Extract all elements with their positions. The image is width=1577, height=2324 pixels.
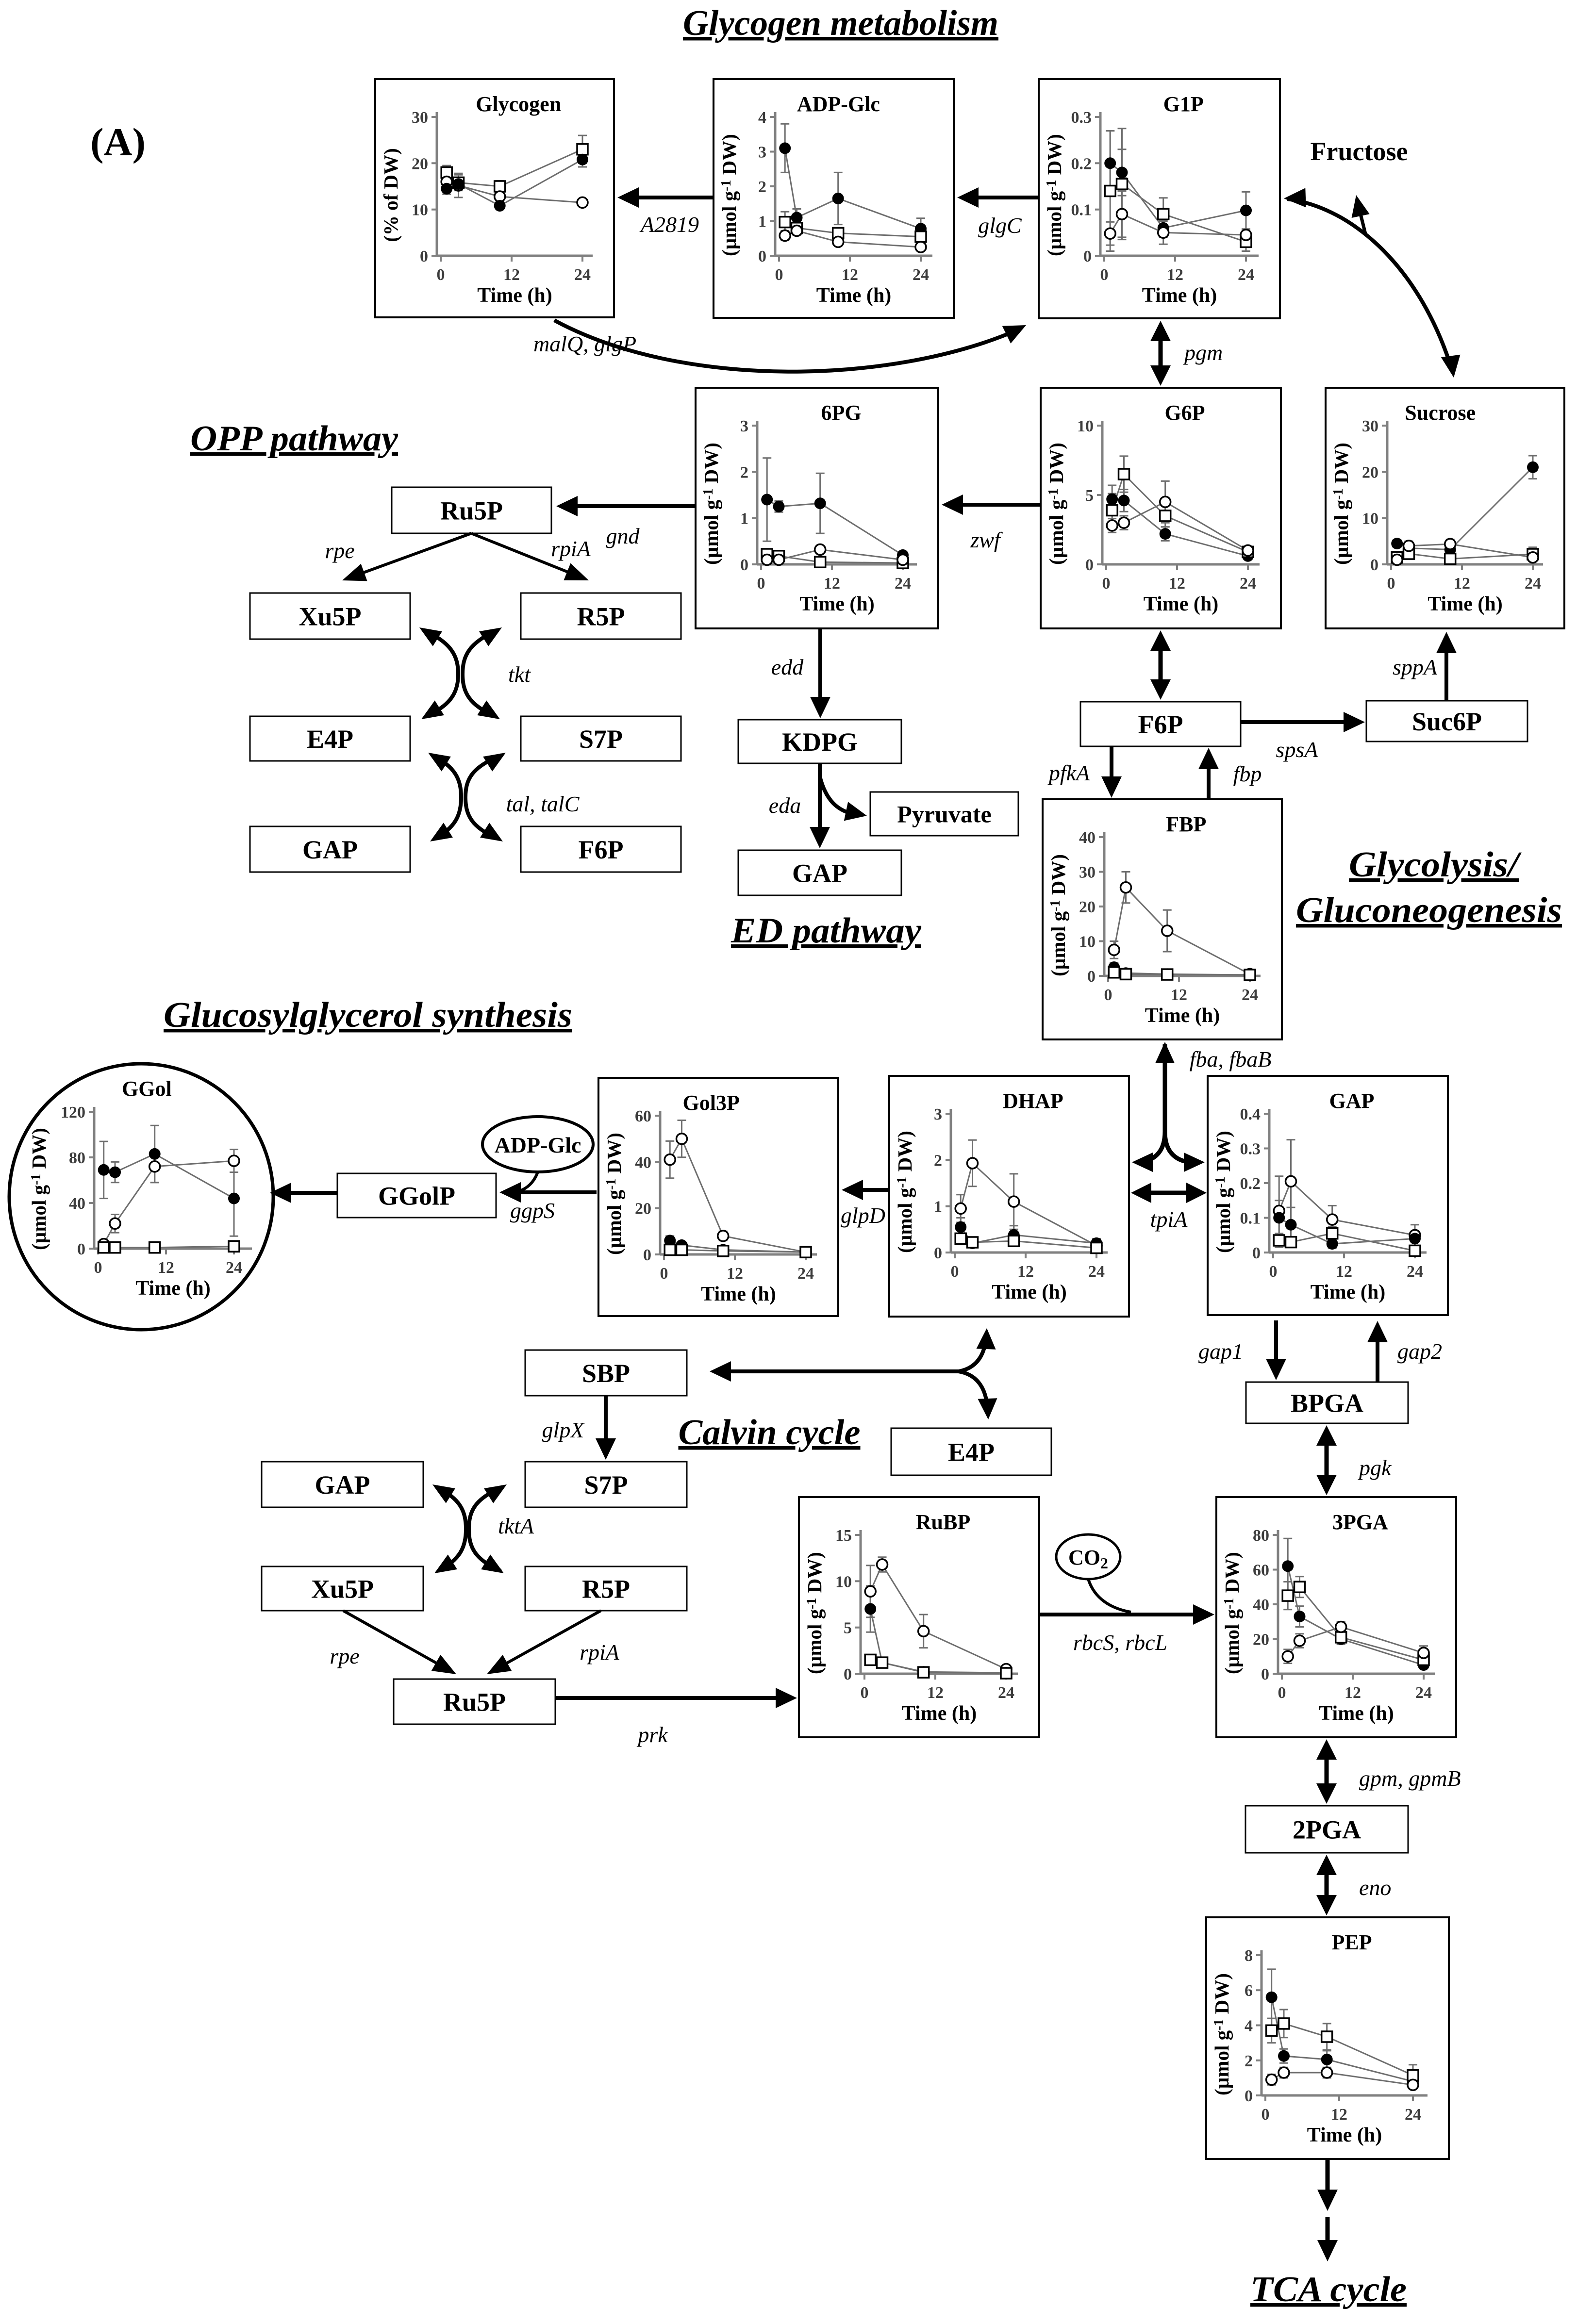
- arrow GGolP to GGol: [270, 1183, 337, 1203]
- svg-text:glpD: glpD: [841, 1203, 885, 1228]
- svg-text:80: 80: [1253, 1527, 1269, 1545]
- svg-text:15: 15: [835, 1527, 852, 1545]
- svg-text:24: 24: [797, 1265, 814, 1283]
- box Suc6P: [1366, 701, 1527, 742]
- svg-text:80: 80: [69, 1149, 85, 1167]
- ellipse ADP-Glc: [482, 1117, 593, 1172]
- svg-text:40: 40: [69, 1195, 85, 1213]
- svg-text:GAP: GAP: [315, 1470, 370, 1500]
- svg-text:(µmol g-1 DW): (µmol g-1 DW): [1045, 443, 1067, 565]
- svg-text:GAP: GAP: [302, 835, 358, 864]
- arrow zwf: [942, 494, 1041, 552]
- svg-text:60: 60: [1253, 1562, 1269, 1580]
- box GAP Calvin: [262, 1462, 423, 1507]
- svg-text:gpm, gpmB: gpm, gpmB: [1359, 1766, 1461, 1791]
- box F6P glycolysis: [1080, 702, 1241, 746]
- box Xu5P OPP: [250, 593, 410, 639]
- svg-text:Pyruvate: Pyruvate: [897, 801, 991, 828]
- svg-text:120: 120: [61, 1104, 85, 1121]
- svg-text:glgC: glgC: [978, 213, 1022, 238]
- arrow rbcS, rbcL: [1039, 1579, 1214, 1655]
- section title Calvin cycle: [679, 1413, 861, 1452]
- svg-text:0.1: 0.1: [1071, 201, 1092, 219]
- svg-text:8: 8: [1245, 1947, 1253, 1965]
- crossing arrows tal, talC: [428, 753, 580, 841]
- svg-text:2: 2: [740, 463, 748, 481]
- svg-text:0: 0: [643, 1246, 651, 1264]
- svg-text:12: 12: [1167, 266, 1183, 284]
- crossing arrows tkt: [419, 627, 531, 719]
- svg-text:Time (h): Time (h): [701, 1283, 776, 1305]
- box E4P OPP: [250, 716, 410, 761]
- svg-text:KDPG: KDPG: [782, 727, 858, 757]
- svg-text:tpiA: tpiA: [1150, 1207, 1188, 1232]
- svg-text:24: 24: [1238, 266, 1254, 284]
- svg-text:ADP-Glc: ADP-Glc: [495, 1133, 581, 1157]
- arrow gap2: [1367, 1321, 1442, 1382]
- svg-text:rpiA: rpiA: [551, 536, 591, 561]
- svg-text:(% of DW): (% of DW): [380, 148, 402, 242]
- svg-text:6: 6: [1245, 1982, 1253, 2000]
- svg-text:(A): (A): [90, 120, 146, 164]
- svg-text:gap1: gap1: [1198, 1339, 1243, 1364]
- arrow eda: [769, 763, 867, 848]
- svg-text:Calvin cycle: Calvin cycle: [679, 1413, 861, 1452]
- svg-text:24: 24: [1242, 986, 1258, 1004]
- svg-text:Time (h): Time (h): [1142, 284, 1217, 307]
- double arrow eno: [1316, 1855, 1391, 1915]
- box Xu5P Calvin: [262, 1566, 423, 1611]
- box BPGA: [1246, 1382, 1408, 1423]
- svg-text:2: 2: [758, 178, 766, 196]
- svg-text:prk: prk: [636, 1722, 668, 1747]
- arrow fbp: [1198, 748, 1262, 799]
- svg-text:G6P: G6P: [1164, 401, 1205, 425]
- section title OPP pathway: [190, 419, 398, 459]
- svg-text:0: 0: [1269, 1263, 1278, 1281]
- svg-text:0: 0: [1261, 1665, 1269, 1683]
- svg-text:Ru5P: Ru5P: [440, 496, 503, 525]
- svg-text:eda: eda: [769, 793, 801, 818]
- box GGolP: [337, 1173, 496, 1218]
- svg-text:S7P: S7P: [584, 1470, 628, 1500]
- svg-text:20: 20: [1079, 898, 1096, 916]
- svg-text:0.2: 0.2: [1240, 1175, 1261, 1193]
- svg-text:12: 12: [727, 1265, 743, 1283]
- svg-text:0: 0: [1370, 556, 1378, 574]
- svg-text:(µmol g-1 DW): (µmol g-1 DW): [1211, 1973, 1233, 2095]
- arrow A2819: [617, 187, 714, 237]
- svg-text:4: 4: [1245, 2017, 1253, 2035]
- svg-text:RuBP: RuBP: [916, 1510, 970, 1534]
- box S7P Calvin: [525, 1462, 687, 1507]
- box S7P OPP: [521, 716, 681, 761]
- svg-text:24: 24: [1407, 1263, 1423, 1281]
- svg-text:rpe: rpe: [330, 1644, 359, 1668]
- curved arrow malQ, glgP: [533, 320, 1026, 372]
- svg-text:2: 2: [934, 1152, 942, 1170]
- svg-text:tal, talC: tal, talC: [506, 791, 580, 816]
- svg-text:24: 24: [1415, 1684, 1432, 1702]
- section title TCA cycle: [1250, 2270, 1407, 2309]
- circle chart GGol: [9, 1064, 273, 1330]
- svg-text:0: 0: [951, 1263, 959, 1281]
- box SBP: [525, 1350, 687, 1396]
- svg-text:GGolP: GGolP: [378, 1181, 455, 1210]
- svg-text:Time (h): Time (h): [816, 284, 891, 307]
- svg-text:spsA: spsA: [1276, 737, 1319, 762]
- svg-text:1: 1: [758, 213, 766, 231]
- svg-text:rpiA: rpiA: [580, 1640, 620, 1665]
- svg-text:10: 10: [1362, 510, 1378, 528]
- box 2PGA: [1245, 1806, 1408, 1853]
- svg-text:Gol3P: Gol3P: [683, 1091, 740, 1115]
- svg-text:Suc6P: Suc6P: [1412, 707, 1482, 736]
- svg-text:24: 24: [1240, 575, 1256, 593]
- svg-text:Fructose: Fructose: [1311, 137, 1408, 166]
- svg-text:Xu5P: Xu5P: [311, 1574, 374, 1603]
- svg-text:fba, fbaB: fba, fbaB: [1190, 1047, 1272, 1071]
- svg-text:40: 40: [1079, 829, 1096, 847]
- svg-text:Time (h): Time (h): [1144, 593, 1218, 615]
- svg-text:4: 4: [758, 109, 766, 127]
- svg-text:0.3: 0.3: [1071, 109, 1092, 127]
- svg-text:1: 1: [934, 1198, 942, 1216]
- svg-text:F6P: F6P: [1138, 710, 1183, 739]
- double arrow tpiA: [1131, 1183, 1207, 1232]
- svg-text:(µmol g-1 DW): (µmol g-1 DW): [28, 1128, 50, 1250]
- svg-text:24: 24: [913, 266, 929, 284]
- svg-text:Sucrose: Sucrose: [1405, 401, 1476, 425]
- svg-text:0: 0: [1083, 247, 1092, 265]
- svg-text:6PG: 6PG: [821, 401, 861, 425]
- arrow prk: [555, 1688, 797, 1747]
- section title Glucosylglycerol synthesis: [164, 995, 572, 1035]
- svg-text:30: 30: [1079, 864, 1096, 882]
- svg-text:3: 3: [758, 144, 766, 162]
- curved double arrow Fructose-G1P-Sucrose: [1284, 188, 1461, 378]
- svg-text:0: 0: [1085, 556, 1094, 574]
- svg-text:12: 12: [1345, 1684, 1361, 1702]
- svg-text:0.3: 0.3: [1240, 1140, 1261, 1158]
- svg-text:(µmol g-1 DW): (µmol g-1 DW): [1212, 1131, 1234, 1253]
- arrow rpe Calvin: [330, 1611, 456, 1674]
- svg-text:0: 0: [1252, 1244, 1261, 1262]
- box R5P OPP: [521, 593, 681, 639]
- box Pyruvate: [870, 792, 1018, 836]
- svg-text:Time (h): Time (h): [1319, 1702, 1394, 1725]
- svg-text:Time (h): Time (h): [902, 1702, 977, 1725]
- box Ru5P OPP: [392, 487, 551, 533]
- svg-text:0.2: 0.2: [1071, 155, 1092, 173]
- svg-text:TCA cycle: TCA cycle: [1250, 2270, 1407, 2309]
- svg-text:24: 24: [998, 1684, 1014, 1702]
- svg-text:Glycogen: Glycogen: [476, 92, 561, 116]
- svg-text:12: 12: [824, 575, 840, 593]
- svg-text:Time (h): Time (h): [1307, 2124, 1382, 2146]
- svg-text:(µmol g-1 DW): (µmol g-1 DW): [894, 1131, 916, 1253]
- svg-text:10: 10: [835, 1573, 852, 1591]
- svg-text:10: 10: [412, 201, 428, 219]
- svg-text:pgm: pgm: [1183, 340, 1223, 365]
- crossing arrows tktA: [432, 1484, 534, 1573]
- svg-text:E4P: E4P: [307, 725, 353, 754]
- svg-text:10: 10: [1077, 417, 1094, 435]
- svg-text:(µmol g-1 DW): (µmol g-1 DW): [1221, 1552, 1243, 1674]
- svg-text:FBP: FBP: [1166, 812, 1206, 836]
- svg-text:12: 12: [1169, 575, 1185, 593]
- svg-text:tktA: tktA: [498, 1514, 534, 1538]
- svg-text:20: 20: [1362, 463, 1378, 481]
- svg-text:0: 0: [1100, 266, 1109, 284]
- svg-text:20: 20: [412, 155, 428, 173]
- svg-text:0: 0: [77, 1240, 85, 1258]
- svg-text:tkt: tkt: [508, 662, 531, 687]
- arrow gnd: [556, 496, 696, 548]
- chart Sucrose: [1326, 388, 1564, 628]
- svg-text:2: 2: [1245, 2052, 1253, 2070]
- svg-text:ggpS: ggpS: [510, 1198, 555, 1223]
- svg-text:eno: eno: [1359, 1875, 1391, 1900]
- section title Glycogen metabolism: [683, 3, 998, 43]
- svg-text:0: 0: [94, 1259, 102, 1277]
- svg-text:(µmol g-1 DW): (µmol g-1 DW): [700, 443, 722, 565]
- svg-text:DHAP: DHAP: [1003, 1089, 1063, 1113]
- svg-text:gap2: gap2: [1397, 1339, 1442, 1364]
- svg-text:malQ, glgP: malQ, glgP: [533, 331, 636, 356]
- section title ED pathway: [730, 911, 922, 951]
- svg-text:12: 12: [1017, 1263, 1034, 1281]
- svg-text:5: 5: [1085, 487, 1094, 505]
- svg-text:S7P: S7P: [579, 725, 623, 754]
- double arrow G6P-F6P: [1150, 630, 1171, 700]
- box E4P Calvin: [891, 1428, 1051, 1475]
- svg-text:0: 0: [775, 266, 783, 284]
- chart G6P: [1041, 388, 1281, 628]
- svg-text:30: 30: [412, 109, 428, 127]
- svg-text:Xu5P: Xu5P: [299, 602, 361, 631]
- fork arrows fba, fbaB: [1132, 1042, 1271, 1172]
- arrow pfkA: [1047, 746, 1122, 798]
- svg-text:5: 5: [844, 1619, 852, 1637]
- double arrow gpm, gpmB: [1316, 1739, 1461, 1804]
- chart Gol3P: [598, 1078, 838, 1316]
- svg-text:24: 24: [226, 1259, 242, 1277]
- svg-text:12: 12: [503, 266, 520, 284]
- svg-text:0: 0: [1104, 986, 1112, 1004]
- svg-text:40: 40: [1253, 1596, 1269, 1614]
- svg-text:F6P: F6P: [579, 835, 624, 864]
- svg-text:40: 40: [635, 1154, 651, 1171]
- arrow gap1: [1198, 1320, 1286, 1380]
- arrow edd: [771, 628, 830, 718]
- box GAP ED: [738, 850, 901, 895]
- svg-text:sppA: sppA: [1393, 655, 1438, 679]
- chart ADP-Glc: [714, 79, 954, 318]
- svg-text:0: 0: [420, 247, 428, 265]
- svg-text:0: 0: [660, 1265, 668, 1283]
- svg-text:Time (h): Time (h): [477, 284, 552, 307]
- svg-text:0: 0: [861, 1684, 869, 1702]
- svg-text:24: 24: [1088, 1263, 1105, 1281]
- svg-text:GGol: GGol: [122, 1077, 172, 1101]
- box R5P Calvin: [525, 1566, 687, 1611]
- svg-text:R5P: R5P: [577, 602, 625, 631]
- svg-text:0: 0: [758, 247, 766, 265]
- arrow rpiA Ru5P-R5P: [471, 533, 591, 580]
- chart FBP: [1043, 799, 1282, 1039]
- svg-text:3PGA: 3PGA: [1332, 1510, 1388, 1534]
- svg-text:12: 12: [842, 266, 858, 284]
- arrow sppA: [1393, 632, 1457, 701]
- arrow spsA: [1241, 712, 1365, 762]
- svg-text:0.1: 0.1: [1240, 1210, 1261, 1228]
- svg-text:pgk: pgk: [1358, 1455, 1392, 1480]
- svg-text:12: 12: [158, 1259, 174, 1277]
- svg-text:Glycolysis/: Glycolysis/: [1349, 845, 1522, 885]
- svg-text:0: 0: [1387, 575, 1395, 593]
- svg-text:(µmol g-1 DW): (µmol g-1 DW): [1043, 134, 1065, 256]
- svg-text:12: 12: [1171, 986, 1187, 1004]
- label Fructose: [1311, 137, 1408, 166]
- svg-text:12: 12: [1454, 575, 1470, 593]
- svg-text:G1P: G1P: [1163, 92, 1204, 116]
- ellipse CO2: [1056, 1534, 1120, 1579]
- svg-text:1: 1: [740, 510, 748, 528]
- svg-text:zwf: zwf: [970, 527, 1003, 552]
- arrow glpX: [542, 1396, 616, 1460]
- svg-text:0: 0: [844, 1665, 852, 1683]
- svg-text:Time (h): Time (h): [1311, 1281, 1385, 1303]
- double arrow pgk: [1316, 1425, 1392, 1495]
- svg-text:pfkA: pfkA: [1047, 760, 1090, 785]
- svg-text:BPGA: BPGA: [1291, 1388, 1363, 1417]
- svg-text:10: 10: [1079, 933, 1096, 951]
- svg-text:12: 12: [1331, 2106, 1347, 2124]
- arrow rpe Ru5P-Xu5P: [325, 533, 471, 581]
- box F6P OPP: [521, 826, 681, 872]
- svg-text:rpe: rpe: [325, 538, 354, 563]
- svg-text:30: 30: [1362, 417, 1378, 435]
- svg-text:fbp: fbp: [1233, 761, 1262, 786]
- svg-text:Time (h): Time (h): [799, 593, 874, 615]
- svg-text:20: 20: [635, 1200, 651, 1218]
- chart 3PGA: [1216, 1497, 1456, 1737]
- svg-text:12: 12: [927, 1684, 944, 1702]
- svg-text:Time (h): Time (h): [1428, 593, 1502, 615]
- section title Glycolysis/Gluconeogenesis: [1296, 845, 1562, 930]
- svg-text:GAP: GAP: [1329, 1089, 1375, 1113]
- chart 6PG: [696, 388, 938, 628]
- svg-text:24: 24: [574, 266, 591, 284]
- svg-text:Time (h): Time (h): [1145, 1005, 1220, 1027]
- box Ru5P Calvin: [394, 1679, 555, 1724]
- svg-text:24: 24: [1525, 575, 1541, 593]
- svg-text:ED pathway: ED pathway: [730, 911, 922, 951]
- chart RuBP: [799, 1497, 1039, 1737]
- chart G1P: [1039, 79, 1280, 318]
- svg-text:glpX: glpX: [542, 1417, 585, 1442]
- svg-text:SBP: SBP: [582, 1359, 630, 1388]
- svg-text:2PGA: 2PGA: [1293, 1815, 1361, 1844]
- svg-text:24: 24: [1405, 2106, 1421, 2124]
- chart Glycogen: [375, 79, 614, 317]
- svg-text:gnd: gnd: [606, 524, 640, 548]
- svg-text:Gluconeogenesis: Gluconeogenesis: [1296, 890, 1562, 930]
- svg-text:3: 3: [740, 417, 748, 435]
- svg-text:A2819: A2819: [639, 212, 699, 237]
- svg-text:PEP: PEP: [1331, 1930, 1372, 1954]
- svg-text:Ru5P: Ru5P: [443, 1687, 506, 1716]
- svg-text:GAP: GAP: [792, 858, 847, 888]
- svg-text:Glucosylglycerol synthesis: Glucosylglycerol synthesis: [164, 995, 572, 1035]
- svg-text:(µmol g-1 DW): (µmol g-1 DW): [603, 1133, 625, 1255]
- svg-text:Glycogen metabolism: Glycogen metabolism: [683, 3, 998, 43]
- svg-text:rbcS, rbcL: rbcS, rbcL: [1073, 1630, 1167, 1655]
- svg-text:Time (h): Time (h): [135, 1277, 210, 1300]
- svg-text:0: 0: [1245, 2087, 1253, 2105]
- svg-text:12: 12: [1336, 1263, 1352, 1281]
- svg-text:OPP pathway: OPP pathway: [190, 419, 398, 459]
- svg-text:0: 0: [1102, 575, 1111, 593]
- svg-text:0: 0: [757, 575, 765, 593]
- arrow to SBP with fork to DHAP and E4P: [710, 1328, 997, 1419]
- svg-text:0: 0: [934, 1244, 942, 1262]
- arrow glgC: [957, 187, 1038, 238]
- box KDPG: [738, 720, 901, 763]
- svg-text:R5P: R5P: [582, 1574, 630, 1603]
- svg-text:24: 24: [895, 575, 911, 593]
- arrow ggpS Gol3P to GGolP: [499, 1172, 597, 1223]
- svg-text:0: 0: [1278, 1684, 1286, 1702]
- svg-text:(µmol g-1 DW): (µmol g-1 DW): [1047, 854, 1069, 976]
- svg-text:(µmol g-1 DW): (µmol g-1 DW): [803, 1552, 826, 1674]
- svg-text:edd: edd: [771, 655, 804, 679]
- svg-text:0: 0: [437, 266, 445, 284]
- svg-text:0: 0: [1087, 968, 1096, 986]
- svg-text:ADP-Glc: ADP-Glc: [797, 92, 880, 116]
- box GAP OPP: [250, 826, 410, 872]
- svg-text:0: 0: [740, 556, 748, 574]
- svg-text:20: 20: [1253, 1631, 1269, 1649]
- svg-text:0.4: 0.4: [1240, 1105, 1261, 1123]
- chart DHAP: [889, 1076, 1129, 1317]
- arrow glpD: [841, 1180, 889, 1228]
- arrows PEP to TCA cycle: [1317, 2159, 1338, 2261]
- chart GAP glycolysis: [1208, 1076, 1448, 1315]
- svg-text:0: 0: [1262, 2106, 1270, 2124]
- chart PEP: [1206, 1917, 1449, 2159]
- arrow rpiA Calvin: [487, 1611, 620, 1674]
- label (A): [90, 120, 146, 164]
- svg-text:E4P: E4P: [948, 1437, 995, 1467]
- svg-text:3: 3: [934, 1105, 942, 1123]
- double arrow pgm: [1150, 321, 1223, 386]
- svg-text:60: 60: [635, 1107, 651, 1125]
- svg-text:(µmol g-1 DW): (µmol g-1 DW): [1330, 443, 1352, 565]
- svg-text:Time (h): Time (h): [992, 1281, 1066, 1303]
- svg-text:(µmol g-1 DW): (µmol g-1 DW): [718, 134, 740, 256]
